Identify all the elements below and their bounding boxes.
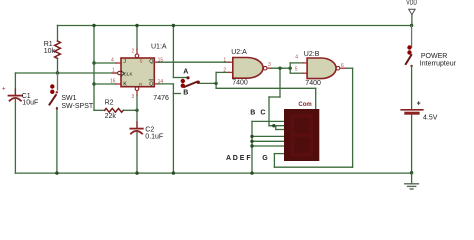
svg-text:U2:B: U2:B bbox=[304, 51, 320, 58]
svg-text:SW-SPST: SW-SPST bbox=[61, 103, 93, 110]
pin 3 CLR bottom bbox=[132, 87, 139, 110]
svg-text:22k: 22k bbox=[105, 113, 117, 120]
capacitor C1 10uF bbox=[2, 73, 38, 173]
node junction SW1-rail bbox=[55, 171, 58, 174]
svg-text:16: 16 bbox=[110, 79, 116, 85]
node junction C2-rail bbox=[135, 171, 138, 174]
wire ADEF net bbox=[226, 121, 284, 174]
wire VDD to A contact bbox=[172, 24, 187, 78]
svg-text:Q: Q bbox=[149, 82, 153, 88]
svg-text:S: S bbox=[140, 58, 143, 63]
ground bbox=[405, 171, 419, 189]
svg-text:+: + bbox=[2, 87, 6, 93]
svg-text:POWER: POWER bbox=[421, 53, 447, 60]
svg-text:B: B bbox=[183, 89, 188, 96]
wire U2:B out to G bbox=[262, 68, 352, 167]
node junction R2/C2/CLR bbox=[135, 109, 138, 112]
svg-text:1: 1 bbox=[112, 67, 115, 73]
svg-text:5: 5 bbox=[295, 66, 298, 72]
svg-text:CLK: CLK bbox=[124, 72, 134, 77]
wire Qbar bbox=[155, 79, 174, 85]
capacitor C2 0.1uF bbox=[130, 110, 163, 173]
svg-text:7400: 7400 bbox=[305, 80, 321, 87]
svg-text:Com: Com bbox=[298, 102, 311, 108]
wire bottom rail bbox=[15, 172, 411, 174]
power VDD symbol bbox=[406, 0, 417, 27]
resistor R2 22k bbox=[94, 100, 137, 121]
svg-text:10uF: 10uF bbox=[22, 100, 38, 107]
svg-text:U1:A: U1:A bbox=[151, 43, 167, 50]
pin 1 CLK stub bbox=[112, 67, 117, 73]
svg-text:A D E F: A D E F bbox=[226, 155, 251, 162]
wire C net to display B,C bbox=[250, 68, 284, 129]
svg-text:A: A bbox=[183, 68, 188, 75]
svg-text:10k: 10k bbox=[44, 48, 56, 55]
wire J input bbox=[94, 58, 121, 64]
wire Qbar down to rail bbox=[172, 84, 181, 175]
svg-text:14: 14 bbox=[158, 79, 164, 85]
svg-text:+: + bbox=[417, 101, 421, 108]
svg-text:K: K bbox=[123, 82, 127, 88]
switch POWER bbox=[406, 26, 457, 109]
svg-text:B C: B C bbox=[250, 110, 267, 117]
op-amp gate U2:A 7400 bbox=[231, 49, 271, 86]
svg-text:R2: R2 bbox=[105, 100, 114, 107]
battery 4.5V bbox=[401, 101, 438, 173]
svg-text:4: 4 bbox=[295, 54, 298, 60]
wire Q to U2:A pin1 bbox=[155, 57, 233, 63]
svg-text:4.5V: 4.5V bbox=[423, 115, 438, 122]
op chip U1:A 7476 bbox=[118, 43, 169, 102]
pin 2 PRE top bbox=[132, 24, 139, 58]
svg-text:1: 1 bbox=[223, 57, 226, 63]
svg-text:U2:A: U2:A bbox=[231, 49, 247, 56]
switch SPDT A/B bbox=[181, 68, 200, 96]
svg-text:VDD: VDD bbox=[406, 0, 417, 7]
wire SPDT common bbox=[200, 82, 218, 85]
svg-text:3: 3 bbox=[132, 94, 135, 100]
svg-text:SW1: SW1 bbox=[61, 95, 76, 102]
display 7-seg bbox=[284, 102, 319, 161]
wire VDD top rail bbox=[58, 25, 412, 27]
switch SW1 SW-SPST bbox=[50, 73, 94, 173]
svg-text:C2: C2 bbox=[145, 126, 154, 133]
svg-text:Interrupteur: Interrupteur bbox=[420, 61, 457, 68]
wire K input bbox=[94, 79, 121, 85]
svg-text:2: 2 bbox=[132, 49, 135, 55]
wire vertical bus J/K bbox=[92, 24, 95, 111]
wire CLK horizontal bbox=[15, 72, 118, 74]
wire common to pin2 bbox=[216, 67, 233, 88]
svg-text:4: 4 bbox=[111, 58, 114, 64]
wire U2:A out to U2:B in bbox=[272, 54, 308, 73]
svg-text:G: G bbox=[262, 155, 268, 162]
svg-text:0.1uF: 0.1uF bbox=[145, 134, 163, 141]
op-amp gate U2:B 7400 bbox=[304, 51, 346, 87]
svg-text:3: 3 bbox=[268, 62, 271, 68]
node junction R1/SW1 bbox=[56, 71, 59, 74]
svg-text:6: 6 bbox=[341, 63, 344, 69]
svg-text:2: 2 bbox=[223, 67, 226, 73]
wire common to Com bbox=[216, 88, 316, 109]
svg-text:7476: 7476 bbox=[153, 95, 169, 102]
svg-text:J: J bbox=[123, 59, 126, 65]
svg-text:7400: 7400 bbox=[232, 79, 248, 86]
node junction R1-rail bbox=[57, 25, 59, 27]
svg-text:15: 15 bbox=[158, 57, 164, 63]
resistor R1 10k bbox=[44, 26, 61, 74]
svg-text:Q: Q bbox=[149, 59, 153, 65]
